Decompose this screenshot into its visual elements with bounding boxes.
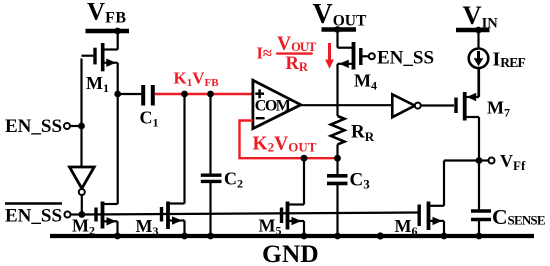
transistor M2: [72, 94, 118, 238]
wire CSENSE top: [478, 161, 480, 210]
node VIN junction: [475, 27, 482, 34]
wire CSENSE bottom: [478, 221, 480, 236]
op-amp COM comparator: [253, 80, 301, 128]
terminal M4 gate EN_SS: [369, 53, 375, 59]
label EN_SS-bar (bottom left): [5, 204, 62, 227]
wire M1 gate to EN_SS node: [80, 59, 82, 127]
net K2VOUT red wire: [240, 121, 338, 159]
transistor M3: [136, 94, 185, 238]
net VFB rail: [86, 0, 130, 31]
node M3 source on GND: [181, 233, 188, 240]
wire inverter output to EN_SS-bar node: [81, 195, 83, 215]
node C3 on GND: [334, 233, 341, 240]
wire C2 bottom: [209, 183, 211, 236]
svg-text:GND: GND: [262, 239, 319, 266]
node CSENSE on GND: [476, 233, 483, 240]
node EN_SS-bar junction: [78, 211, 85, 218]
capacitor C3: [327, 170, 370, 192]
capacitor C1: [118, 85, 159, 130]
node C2 on GND: [207, 233, 214, 240]
node VFB junction: [114, 28, 121, 35]
arrow current direction: [325, 43, 334, 69]
transistor M6: [395, 202, 445, 239]
terminal EN_SS: [64, 123, 70, 129]
node M6 source on GND: [441, 233, 448, 240]
current source IREF: [469, 30, 526, 97]
wire EN_SS-bar bus to gates of M2 M3 M5 M6: [82, 213, 418, 215]
capacitor CSENSE: [471, 205, 545, 229]
wire C3 top: [336, 158, 338, 174]
svg-text:I≈: I≈: [257, 43, 272, 62]
wire M6 drain to VFf: [443, 161, 445, 206]
net VOUT rail: [313, 0, 367, 30]
resistor RR: [331, 116, 375, 158]
wire C2 top: [209, 94, 211, 174]
node spare on GND: [377, 232, 384, 239]
svg-text:COM: COM: [255, 98, 291, 115]
svg-text:EN_SS: EN_SS: [5, 116, 62, 137]
transistor M1: [82, 31, 118, 95]
node K2VOUT to M5 tap: [301, 155, 308, 162]
svg-text:EN_SS: EN_SS: [377, 48, 434, 69]
wire VFf to M6 drain: [444, 159, 479, 161]
wire C3 bottom: [336, 185, 338, 236]
wire EN_SS terminal to junction: [70, 125, 82, 127]
transistor M5: [259, 158, 305, 237]
node M1-C1 junction: [114, 91, 121, 98]
inverter U2 (comparator to M7 gate): [392, 94, 421, 117]
node K2VOUT RR C3 junction: [334, 155, 341, 162]
node VOUT junction: [334, 26, 341, 33]
wire EN_SS to inverter: [80, 126, 82, 167]
node VFf junction: [476, 157, 483, 164]
transistor M7: [456, 68, 510, 161]
wire EN_SS-bar terminal to junction: [71, 213, 82, 215]
svg-text:EN_SS: EN_SS: [5, 206, 62, 227]
node K1VFB to C2 tap: [207, 91, 214, 98]
terminal EN_SS-bar: [65, 212, 71, 218]
inverter U1 (EN_SS to EN_SS-bar): [70, 167, 95, 195]
terminal VFf: [489, 158, 495, 164]
node M5 source on GND: [301, 233, 308, 240]
wire VFf to terminal: [479, 159, 489, 161]
wire comparator output to buffer: [302, 104, 393, 106]
transistor M4: [338, 30, 378, 117]
net K1VFB red wire: [155, 93, 253, 95]
ground: [50, 236, 534, 266]
capacitor C2: [201, 169, 243, 191]
net VIN rail: [456, 0, 498, 32]
node M2 source on GND: [114, 233, 121, 240]
wire buffer to M7 gate: [421, 104, 454, 106]
label formula I = VOUT / RR: [257, 33, 318, 74]
node K1VFB to M3 tap: [181, 91, 188, 98]
node EN_SS junction: [78, 123, 85, 130]
